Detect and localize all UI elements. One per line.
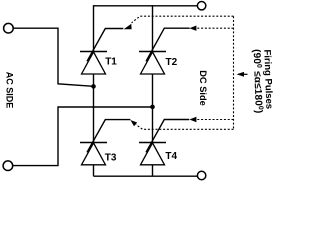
node A junction T1-T3 <box>91 84 96 89</box>
terminal DC top-right <box>197 2 205 10</box>
wire bottom DC bus <box>94 175 198 177</box>
thyristor T4 <box>139 120 189 165</box>
svg-text:AC SIDE: AC SIDE <box>5 72 15 109</box>
node B junction T2-T4 <box>150 105 155 110</box>
svg-text:T2: T2 <box>166 57 178 68</box>
wire left leg T1-T3 column <box>93 5 95 176</box>
svg-text:T1: T1 <box>105 56 117 67</box>
thyristor T1 <box>80 29 123 75</box>
firing pulse bus dashed vertical <box>233 16 235 129</box>
arrow firing pulses label pointer <box>243 73 247 75</box>
wire right leg T2-T4 column <box>152 5 154 176</box>
svg-text:DC Side: DC Side <box>198 70 208 106</box>
arrow gate T3 <box>130 120 137 126</box>
firing pulse branch to T2 <box>197 27 234 29</box>
arrow gate T4 <box>189 117 196 122</box>
wire top DC bus <box>94 5 198 7</box>
arrow gate T2 <box>189 26 196 31</box>
firing pulse branch to T1 <box>132 16 234 23</box>
thyristor T3 <box>80 120 130 165</box>
arrow gate T1 <box>124 24 132 30</box>
svg-text:(900 ≤α≤1800): (900 ≤α≤1800) <box>251 49 264 114</box>
terminal AC top-left <box>4 23 14 33</box>
svg-text:T4: T4 <box>165 151 177 162</box>
terminal DC bottom-right <box>197 171 205 179</box>
wire AC phase A <box>13 28 93 86</box>
wire AC phase B <box>13 107 153 166</box>
svg-text:T3: T3 <box>105 152 117 163</box>
firing pulse branch to T3 <box>136 125 234 130</box>
terminal AC bottom-left <box>3 161 13 171</box>
thyristor T2 <box>139 28 190 74</box>
firing pulse branch to T4 <box>197 119 234 121</box>
